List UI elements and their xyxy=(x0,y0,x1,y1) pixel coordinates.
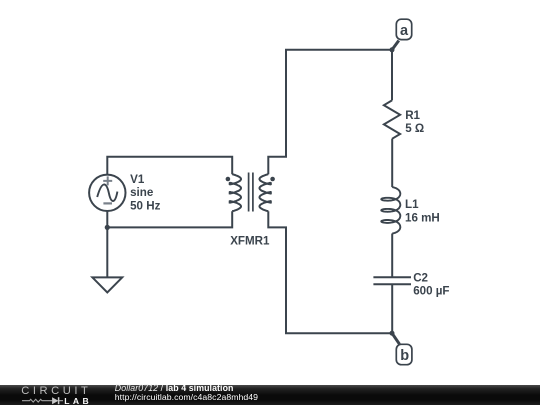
svg-text:16 mH: 16 mH xyxy=(405,211,440,224)
svg-text:600 µF: 600 µF xyxy=(413,285,449,298)
wire XFMR1 secondary top to node a xyxy=(268,50,392,174)
label R1 5 ohm xyxy=(405,109,424,135)
junction node b xyxy=(390,331,395,336)
wire C2 to node b xyxy=(391,284,393,333)
XFMR1 primary phase dot xyxy=(226,177,231,182)
junction node a xyxy=(390,47,395,52)
label V1 sine 50 Hz xyxy=(130,173,160,213)
wire node a to resistor R1 xyxy=(391,50,393,101)
XFMR1 secondary phase dot xyxy=(270,177,275,182)
node a xyxy=(392,19,412,50)
capacitor C2 xyxy=(373,277,411,284)
junction at V1 bottom xyxy=(105,225,110,230)
label L1 16 mH xyxy=(405,198,440,224)
voltage source V1 xyxy=(89,175,125,211)
svg-text:L1: L1 xyxy=(405,198,419,211)
svg-text:a: a xyxy=(400,23,409,39)
svg-text:b: b xyxy=(400,348,409,364)
footer title and url xyxy=(115,383,234,393)
svg-text:50 Hz: 50 Hz xyxy=(130,199,160,212)
wire V1 bottom to XFMR1 primary bottom xyxy=(107,211,232,227)
label C2 600 uF xyxy=(413,271,449,297)
wire to ground xyxy=(106,227,108,277)
wire L1 to C2 xyxy=(391,234,393,278)
CircuitLab logo xyxy=(21,385,91,397)
node b xyxy=(392,333,412,364)
wire R1 to L1 xyxy=(391,139,393,187)
wire V1 top to XFMR1 primary xyxy=(107,157,232,175)
svg-text:sine: sine xyxy=(130,186,154,199)
svg-text:XFMR1: XFMR1 xyxy=(230,234,270,247)
ground xyxy=(92,277,122,292)
footer bar xyxy=(0,385,540,405)
transformer XFMR1 core xyxy=(249,173,253,212)
svg-text:V1: V1 xyxy=(130,173,145,186)
transformer XFMR1 secondary coil xyxy=(260,174,271,211)
transformer XFMR1 primary coil xyxy=(230,174,241,211)
svg-text:C2: C2 xyxy=(413,271,428,284)
svg-text:5 Ω: 5 Ω xyxy=(405,122,424,135)
svg-text:R1: R1 xyxy=(405,109,420,122)
inductor L1 xyxy=(381,187,400,233)
wire XFMR1 secondary bottom to node b xyxy=(268,211,392,333)
resistor R1 xyxy=(384,100,400,138)
